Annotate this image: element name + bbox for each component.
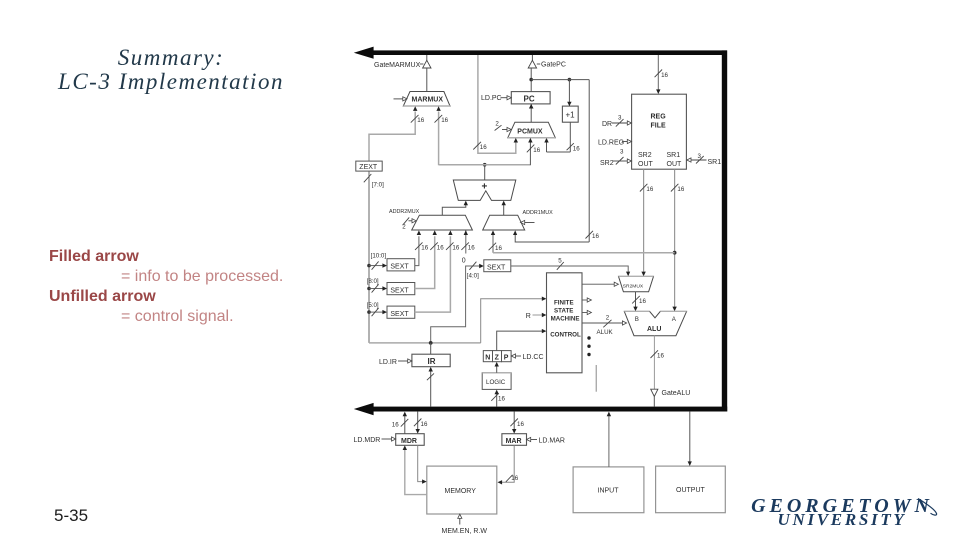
svg-text:MEMORY: MEMORY (445, 488, 477, 495)
svg-text:REG: REG (651, 114, 667, 121)
finite state machine FSM CONTROL (547, 273, 583, 373)
svg-text:16: 16 (392, 421, 399, 428)
wire adder output to MARMUX and PCMUX middle (439, 112, 541, 181)
svg-text:DR: DR (602, 121, 612, 128)
svg-text:FILE: FILE (651, 123, 666, 130)
register MAR (502, 434, 527, 446)
svg-text:LD.MAR: LD.MAR (539, 437, 565, 444)
control signal SR1 3 (687, 153, 721, 166)
svg-text:ZEXT: ZEXT (359, 164, 378, 171)
svg-text:0: 0 (462, 257, 466, 264)
wire NZP to FSM (497, 329, 547, 351)
svg-text:16: 16 (657, 353, 664, 360)
svg-text:GateALU: GateALU (662, 390, 691, 397)
svg-text:LD.REG: LD.REG (598, 139, 624, 146)
svg-text:GatePC: GatePC (541, 62, 566, 69)
svg-text:16: 16 (677, 186, 684, 193)
FSM output stub 1 (582, 298, 591, 302)
svg-text:+: + (482, 181, 488, 192)
tri-state gate GatePC (528, 55, 566, 69)
svg-text:16: 16 (639, 298, 646, 305)
wire junction to +1 box (567, 80, 571, 107)
condition code register Z (493, 351, 502, 362)
svg-text:16: 16 (421, 245, 428, 252)
wire PCMUX output to PC (529, 104, 534, 122)
svg-text:2: 2 (606, 315, 610, 322)
register PC (511, 92, 550, 104)
control signal LD.IR (379, 359, 412, 366)
svg-text:FINITE: FINITE (554, 300, 574, 307)
svg-text:[8:0]: [8:0] (367, 278, 379, 285)
mux SR2MUX (619, 276, 654, 291)
node control ellipsis dots (587, 336, 590, 356)
mux PCMUX (508, 122, 556, 138)
wire IR horizontal to FSM branch (369, 297, 546, 345)
svg-text:[7:0]: [7:0] (372, 182, 384, 189)
output block OUTPUT (656, 466, 726, 513)
wire SR2OUT to SR2MUX (640, 169, 654, 276)
wire bus to LOGIC (491, 390, 505, 407)
svg-text:Z: Z (495, 355, 500, 362)
wire bus to MAR (510, 412, 524, 434)
svg-text:16: 16 (533, 147, 540, 154)
svg-text:LD.IR: LD.IR (379, 359, 397, 366)
georgetown swash tail (918, 499, 937, 516)
control signal R input (526, 313, 547, 320)
bus right segment (722, 50, 727, 411)
wire SEXT8:0 output to ADDR2MUX input2 (415, 236, 435, 288)
svg-text:16: 16 (573, 146, 580, 153)
tri-state gate GateALU (651, 389, 691, 406)
svg-text:16: 16 (517, 421, 524, 428)
wire MARMUX left input from ZEXT (369, 106, 425, 161)
svg-text:IR: IR (428, 357, 436, 366)
wire MAR to MEMORY (498, 445, 519, 484)
svg-text:3: 3 (620, 149, 624, 156)
svg-text:LD.MDR: LD.MDR (354, 437, 381, 444)
wire SEXT4:0 output to SR2MUX (511, 258, 630, 277)
wire IR to SEXT 4:0 (431, 262, 484, 343)
wire ADDR2MUX input4 constant 0 (461, 230, 475, 264)
wire ADDR1MUX left input from SR1OUT (489, 230, 503, 252)
sign-extender SEXT 8:0 (387, 283, 415, 295)
svg-text:ALU: ALU (647, 326, 661, 333)
wire MEMORY to MDR (403, 445, 427, 494)
wire SEXT5:0 output to ADDR2MUX input3 (415, 236, 451, 312)
svg-text:16: 16 (495, 245, 502, 252)
svg-text:SR2MUX: SR2MUX (623, 283, 644, 289)
svg-text:SR1: SR1 (708, 159, 722, 166)
svg-text:INPUT: INPUT (598, 487, 620, 494)
node IR branch [8:0] (367, 278, 387, 292)
logic block LOGIC (482, 373, 511, 390)
FSM output stub 2 (582, 310, 591, 314)
svg-text:SR2: SR2 (600, 160, 614, 167)
wire ADDR2MUX input3 arrow (446, 230, 460, 251)
svg-text:16: 16 (437, 245, 444, 252)
svg-text:SEXT: SEXT (390, 311, 409, 318)
wire LOGIC to NZP (495, 362, 499, 373)
wire ADDR1MUX output to adder (502, 201, 506, 216)
svg-text:16: 16 (511, 475, 518, 482)
wire ADDR2MUX input2 arrow (430, 230, 444, 251)
wire bus to IR (427, 367, 434, 407)
svg-text:N: N (485, 355, 490, 362)
svg-text:MACHINE: MACHINE (551, 316, 580, 323)
svg-text:[10:0]: [10:0] (371, 252, 387, 259)
svg-text:ALUK: ALUK (597, 329, 614, 336)
wire IR bus left vertical with [7:0] slash (364, 171, 384, 343)
svg-text:16: 16 (452, 245, 459, 252)
svg-text:16: 16 (592, 233, 599, 240)
wire +1 box to PCMUX right input (544, 122, 580, 152)
svg-text:GateMARMUX: GateMARMUX (374, 62, 421, 69)
svg-text:2: 2 (495, 120, 499, 127)
svg-text:STATE: STATE (554, 308, 573, 315)
wire control signal down stub (595, 365, 597, 392)
alu ALU (624, 311, 686, 335)
svg-text:MEM.EN, R.W: MEM.EN, R.W (442, 528, 488, 535)
svg-text:16: 16 (646, 186, 653, 193)
svg-text:OUTPUT: OUTPUT (676, 487, 706, 494)
svg-text:16: 16 (661, 72, 668, 79)
select signal ADDR1MUX (521, 220, 535, 224)
svg-text:SEXT: SEXT (390, 288, 409, 295)
control signal LD.REG (598, 139, 632, 146)
wire MARMUX right input arrow (435, 106, 449, 124)
wire bus to MDR (414, 412, 428, 434)
register MDR (396, 434, 425, 446)
control signal LD.MAR (527, 437, 565, 444)
adder PLUS (453, 180, 516, 200)
sign-extender SEXT 10:0 (387, 259, 415, 271)
svg-text:SR1: SR1 (667, 152, 681, 159)
wire ALU output to GateALU (651, 336, 665, 389)
condition code register N (483, 351, 492, 362)
register file REG FILE (632, 94, 687, 169)
mux ADDR2MUX (389, 209, 472, 230)
svg-text:16: 16 (441, 117, 448, 124)
control signal DR 3 (602, 115, 632, 129)
svg-text:MDR: MDR (401, 438, 417, 445)
svg-text:R: R (526, 313, 531, 320)
svg-text:ADDR1MUX: ADDR1MUX (523, 210, 554, 216)
tri-state gate GateMARMUX (374, 55, 431, 91)
wire bus tap to REG FILE (655, 55, 669, 94)
svg-text:OUT: OUT (667, 161, 683, 168)
svg-text:PC: PC (524, 95, 535, 104)
wire ADDR2MUX input1 arrow (415, 230, 429, 251)
wire SEXT10:0 output to ADDR2MUX input1 (415, 236, 419, 265)
svg-text:16: 16 (417, 117, 424, 124)
svg-text:MARMUX: MARMUX (412, 97, 444, 104)
wire MDR to bus (392, 412, 409, 434)
svg-text:SEXT: SEXT (390, 264, 409, 271)
select signal ADDR2MUX 2 (402, 217, 416, 230)
wire SR1OUT horizontal to ADDR1MUX (493, 252, 675, 254)
control signal LD.CC (511, 354, 543, 361)
node IR branch [10:0] (367, 252, 387, 269)
wire SR2MUX output to ALU B (632, 292, 646, 311)
svg-text:LD.PC: LD.PC (481, 95, 502, 102)
svg-text:LOGIC: LOGIC (486, 379, 506, 386)
wire INPUT to bus (607, 412, 611, 467)
svg-text:P: P (504, 355, 509, 362)
select signal PCMUX 2 (495, 120, 512, 131)
mux MARMUX (403, 92, 450, 107)
wire SR1OUT down with junction (671, 169, 685, 311)
svg-text:OUT: OUT (638, 161, 654, 168)
svg-text:SEXT: SEXT (487, 265, 506, 272)
memory block MEMORY (427, 466, 497, 514)
ZEXT box (356, 161, 382, 171)
register +1 box (562, 106, 578, 122)
bus top segment (354, 47, 727, 59)
condition code register P (502, 351, 512, 362)
svg-text:ADDR2MUX: ADDR2MUX (389, 209, 420, 215)
svg-text:16: 16 (498, 395, 505, 402)
control signal LD.PC (481, 95, 511, 102)
control signal MEM.EN R.W (442, 514, 488, 535)
select signal SR2MUX from FSM (582, 282, 618, 286)
svg-text:SR2: SR2 (638, 152, 652, 159)
select signal MARMUX (394, 97, 408, 101)
bus bottom segment (354, 403, 727, 415)
svg-text:MAR: MAR (506, 438, 522, 445)
mux ADDR1MUX (483, 210, 553, 230)
register IR (412, 343, 450, 367)
svg-text:PCMUX: PCMUX (517, 128, 543, 135)
node IR branch [5:0] (367, 302, 387, 316)
wire bus tap to PCMUX left input (473, 55, 518, 153)
control signal LD.MDR (354, 437, 396, 444)
svg-text:3: 3 (618, 115, 622, 122)
control signal SR2 3 (600, 149, 632, 167)
svg-text:16: 16 (468, 245, 475, 252)
svg-text:5: 5 (558, 258, 562, 265)
svg-text:CONTROL: CONTROL (550, 332, 581, 339)
svg-text:LD.CC: LD.CC (523, 354, 544, 361)
wire MDR to MEMORY (418, 445, 427, 484)
wire PC to GatePC with junctions (529, 68, 589, 92)
svg-text:[5:0]: [5:0] (367, 302, 379, 309)
wire ADDR1MUX right input from PC (513, 230, 589, 242)
wire bus to OUTPUT (688, 412, 692, 466)
svg-text:16: 16 (480, 144, 487, 151)
sign-extender SEXT 5:0 (387, 306, 415, 318)
svg-text:+1: +1 (566, 111, 576, 120)
control signal ALUK 2 (582, 315, 627, 337)
svg-text:16: 16 (421, 421, 428, 428)
svg-text:B: B (635, 316, 639, 323)
sign-extender SEXT 4:0 (484, 260, 511, 272)
svg-text:[4:0]: [4:0] (467, 273, 479, 280)
wire PC right branch down to ADDR1MUX (586, 80, 600, 242)
wire ADDR2MUX output to adder (442, 201, 468, 216)
input block INPUT (573, 467, 644, 513)
